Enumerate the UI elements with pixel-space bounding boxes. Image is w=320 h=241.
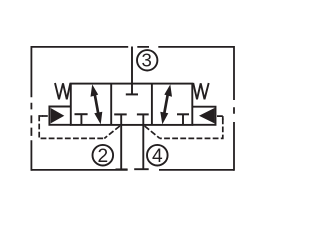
svg-text:3: 3: [142, 50, 152, 71]
port 4 line: [142, 125, 144, 169]
pilot line left (dashed): [39, 116, 120, 138]
port 3 circle: [137, 50, 157, 70]
centre position blocked port T (port 4 side): [137, 114, 149, 125]
pilot arrow right (filled): [199, 108, 215, 123]
valve body boxes: [71, 84, 193, 125]
cartridge boundary bottom edge: [31, 169, 234, 171]
spring left (W): [55, 83, 70, 99]
port 2 circle: [93, 145, 114, 166]
cartridge boundary right edge: [233, 46, 235, 171]
pilot line right (dashed): [145, 116, 223, 138]
pilot box right: [192, 107, 215, 125]
right position flow arrow (double headed): [160, 84, 172, 124]
port 3 line: [131, 47, 133, 95]
port 2 line: [120, 125, 122, 169]
spring right (W): [193, 83, 209, 99]
port 2 terminal bar: [116, 168, 128, 170]
port 4 circle: [147, 145, 168, 166]
left position blocked port T: [75, 114, 88, 125]
left position flow arrow (double headed): [91, 84, 103, 124]
port 3 blocked T bar: [126, 93, 138, 95]
svg-text:2: 2: [97, 146, 108, 167]
cartridge boundary left edge: [30, 46, 32, 171]
pilot box left: [49, 107, 70, 125]
pilot arrow left (filled): [51, 108, 65, 123]
cartridge boundary top edge: [31, 46, 234, 48]
svg-text:4: 4: [152, 146, 163, 167]
centre position blocked port T (port 2 side): [114, 114, 127, 125]
port 4 terminal bar: [134, 168, 149, 170]
right position blocked port T: [177, 114, 189, 125]
